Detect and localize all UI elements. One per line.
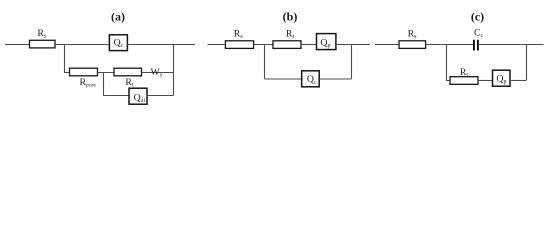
- wire from Qc box to right end (a): [127, 44, 195, 46]
- wire from Rt to Qp (c): [478, 80, 493, 82]
- resistor Rt (b): [273, 28, 301, 48]
- wire bottom branch to Rt (c): [446, 80, 450, 82]
- wire left lead of circuit c: [375, 44, 399, 46]
- wire left branch vertical (c): [446, 45, 448, 81]
- resistor Rt (c): [450, 67, 478, 84]
- resistor Rs (c): [399, 28, 426, 48]
- wire from Rpore to Rt (a): [98, 72, 115, 74]
- resistor Rs (a): [30, 28, 56, 48]
- wire right branch vertical (a): [173, 44, 175, 96]
- wire from Qp to right end (b): [336, 44, 370, 46]
- CPE Qdl box (a): [129, 88, 147, 104]
- CPE Qc box (b): [302, 71, 320, 87]
- wire bottom branch right of Qdl (a): [147, 95, 174, 97]
- wire from Rt to Qp (b): [301, 44, 317, 46]
- wire left lead of circuit b: [208, 44, 226, 46]
- CPE Qc box (a): [109, 35, 127, 51]
- wire from capacitor to right end (c): [479, 44, 544, 46]
- wire bottom branch left of Qc (b): [265, 78, 302, 80]
- wire left lead of circuit a: [5, 44, 30, 46]
- wire bottom branch left of Qdl (a): [103, 95, 129, 97]
- wire left branch vertical (b): [264, 45, 266, 80]
- resistor Rpore (a): [70, 68, 98, 88]
- svg-text:(c): (c): [471, 10, 484, 24]
- resistor Rs (b): [225, 28, 253, 48]
- svg-text:(b): (b): [283, 10, 298, 24]
- resistor Rt (a): [114, 68, 142, 88]
- wire left branch vertical (a): [64, 44, 66, 73]
- wire bottom branch right of Qp (c): [510, 80, 526, 82]
- capacitor Cc (c): [474, 28, 484, 51]
- CPE Qp box (b): [317, 34, 336, 50]
- wire right branch vertical (b): [351, 45, 353, 80]
- wire from Rt to right vertical through Ws (a): [142, 72, 174, 74]
- wire bottom branch right of Qc (b): [319, 78, 351, 80]
- CPE Qp box (c): [493, 70, 511, 86]
- wire from Rs to Rt (b): [254, 44, 273, 46]
- wire from left vertical to Rpore (a): [64, 72, 70, 74]
- wire sub-branch vertical (a): [103, 72, 105, 96]
- wire from Rs to capacitor (c): [426, 44, 473, 46]
- svg-text:(a): (a): [111, 10, 125, 24]
- wire right branch vertical (c): [526, 45, 528, 81]
- wire from Rs to Qc box (a): [55, 44, 109, 46]
